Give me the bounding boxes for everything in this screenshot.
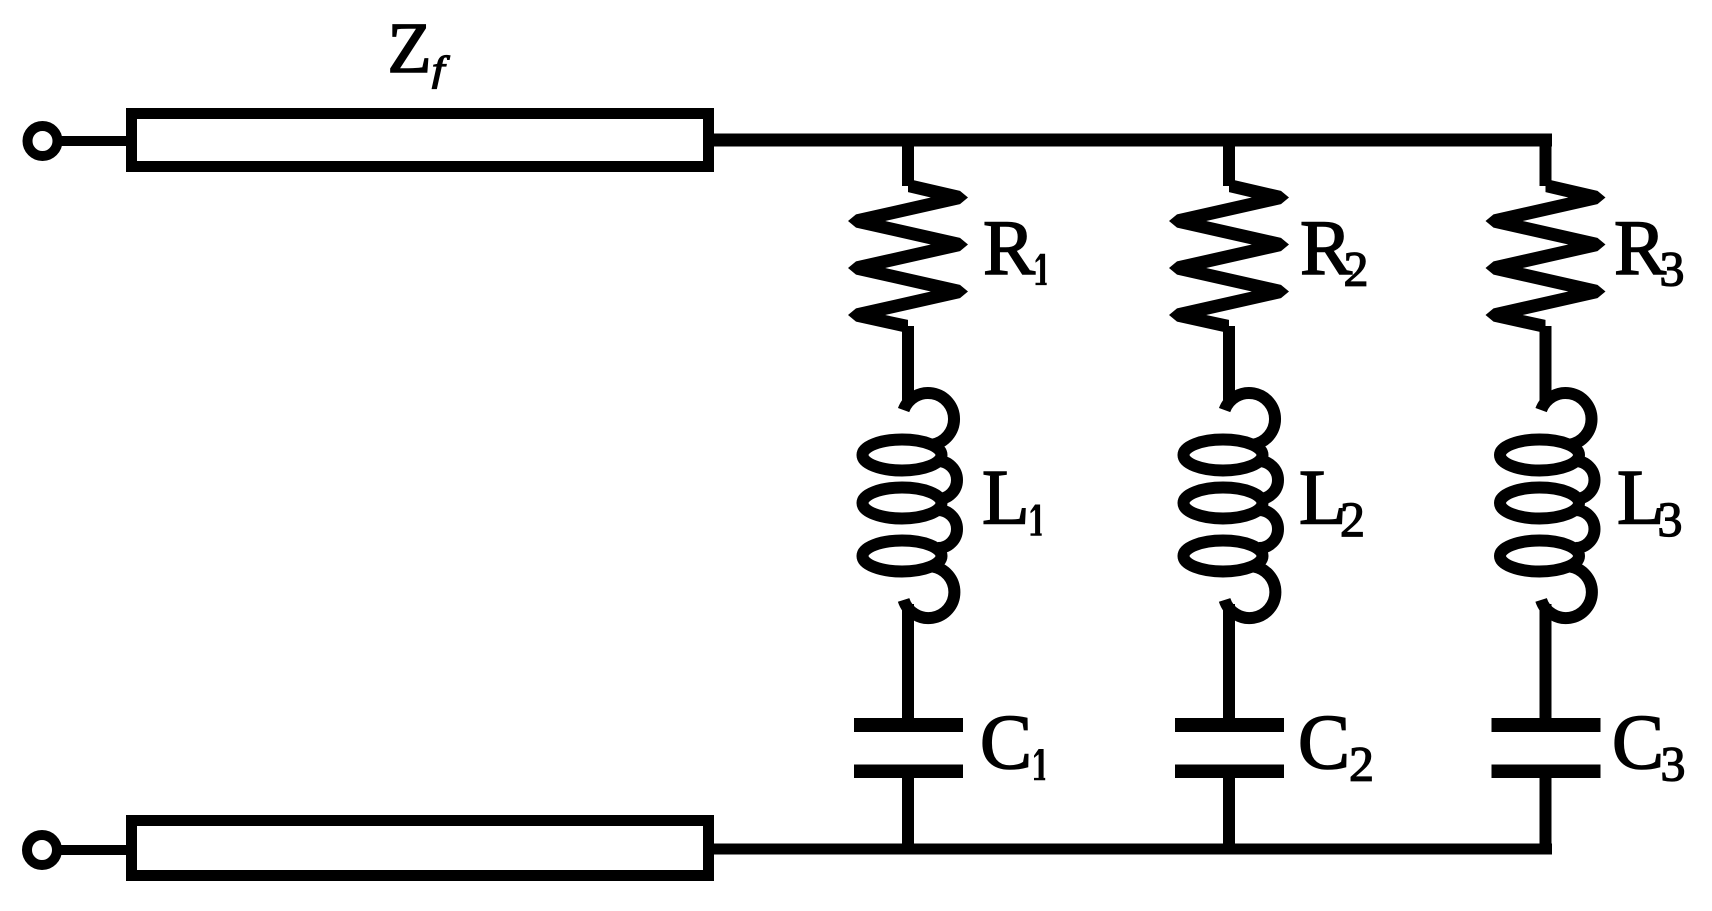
wire lead R1 top [902,140,914,186]
wire top bus [708,134,1552,147]
capacitor C1 [854,718,963,778]
svg-text:2: 2 [1344,241,1369,297]
svg-text:2: 2 [1340,491,1365,547]
wire lead C1 bottom [902,778,914,850]
impedance box Zf (top) [132,114,709,167]
svg-text:C: C [1612,698,1664,785]
terminal bottom-left [27,835,57,865]
svg-text:Z: Z [388,8,432,88]
resistor R3 [1486,179,1606,333]
svg-text:R: R [983,204,1035,291]
wire bottom bus [708,844,1552,855]
wire lead L2-C2 [1223,604,1235,719]
svg-text:C: C [1298,698,1350,785]
inductor L2 [1184,393,1279,618]
wire lead L3-C3 [1540,604,1552,719]
svg-text:C: C [980,698,1032,785]
wire lead R3 top [1540,140,1552,186]
capacitor C2 [1175,718,1284,778]
wire lead R1-L1 [902,326,914,400]
svg-text:R: R [1614,204,1666,291]
resistor R2 [1169,179,1289,333]
inductor L1 [863,393,958,618]
impedance box (bottom) [132,821,709,876]
svg-text:3: 3 [1660,241,1685,297]
wire bottom-left [57,845,131,855]
wire lead R2 top [1223,140,1235,186]
svg-text:3: 3 [1658,491,1683,547]
wire lead C2 bottom [1223,778,1235,850]
wire top-left [57,136,131,146]
wire lead R2-L2 [1223,326,1235,400]
wire lead R3-L3 [1540,326,1552,400]
svg-text:3: 3 [1661,736,1686,792]
wire lead L1-C1 [902,604,914,719]
capacitor C3 [1492,718,1601,778]
svg-text:f: f [432,49,451,89]
svg-text:L: L [982,454,1030,541]
inductor L3 [1500,393,1595,618]
svg-text:2: 2 [1349,736,1374,792]
wire lead C3 bottom [1540,778,1552,850]
resistor R1 [848,179,968,333]
terminal top-left [28,126,58,156]
